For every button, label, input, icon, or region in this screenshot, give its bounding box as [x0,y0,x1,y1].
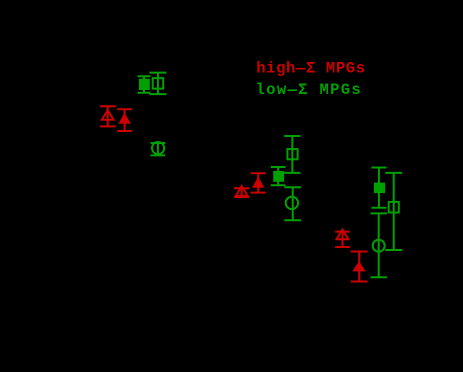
marker: red filled triangle c3 [352,261,365,271]
error bar: green open square c3 [385,173,402,250]
marker: red open triangle c2 [236,186,248,196]
error bar: green open circle c1 [151,143,166,155]
error bar: green open square c2 [284,136,300,173]
marker: red filled triangle c2 [252,177,264,188]
marker: green filled square c3 [374,183,385,194]
error bar: green open circle c2 [284,187,301,220]
marker: red open triangle c3 [337,230,349,240]
error bar: red open triangle c2 [234,188,249,197]
marker: green filled square c1 [139,79,150,90]
error bar: red open triangle c3 [335,232,350,247]
marker: green open square c2 [287,149,297,159]
marker: green open circle c3 [373,240,385,252]
error bar: green filled square c2 [271,167,286,185]
marker: red filled triangle c1 [118,113,130,124]
marker: green open circle c1 [152,142,164,154]
error bar: red filled triangle c1 [117,109,132,131]
error bar: red filled triangle c3 [351,252,368,282]
error bar: green filled square c1 [138,76,151,93]
marker: red open triangle c1 [102,110,114,120]
svg-text:high—Σ MPGs: high—Σ MPGs [256,59,366,77]
marker: green open square c3 [389,202,399,213]
error bar: green open square c1 [149,73,166,95]
svg-text:low—Σ MPGs: low—Σ MPGs [256,81,363,99]
error bar: red filled triangle c2 [251,173,266,192]
error bar: green filled square c3 [371,168,386,208]
error bar: green open circle c3 [371,213,387,277]
marker: green open circle c2 [286,197,298,209]
error bar: red open triangle c1 [100,106,116,126]
marker: green filled square c2 [273,171,284,182]
marker: green open square c1 [153,78,164,89]
